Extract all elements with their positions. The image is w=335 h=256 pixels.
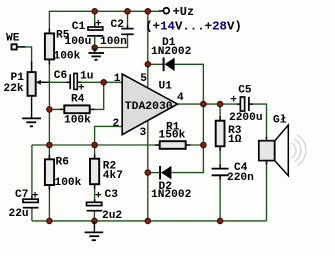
svg-text:1: 1 — [114, 73, 121, 85]
svg-text:+: + — [78, 82, 85, 94]
svg-text:+: + — [95, 191, 102, 203]
svg-text:C3: C3 — [105, 189, 119, 201]
svg-text:+Uz: +Uz — [173, 5, 195, 19]
svg-text:150k: 150k — [159, 130, 186, 142]
svg-text:+: + — [230, 94, 237, 106]
svg-text:1u: 1u — [80, 70, 93, 82]
svg-text:+: + — [32, 190, 39, 202]
svg-text:1Ω: 1Ω — [228, 134, 242, 146]
svg-text:TDA2030: TDA2030 — [125, 101, 173, 113]
svg-text:1N2002: 1N2002 — [151, 46, 192, 58]
svg-text:R6: R6 — [56, 157, 70, 169]
svg-text:2u2: 2u2 — [102, 210, 122, 222]
svg-text:2200u: 2200u — [229, 112, 263, 124]
svg-text:4k7: 4k7 — [103, 170, 123, 182]
svg-text:C7: C7 — [15, 189, 28, 201]
svg-text:22k: 22k — [4, 83, 24, 95]
svg-text:100n: 100n — [100, 36, 127, 48]
svg-text:Gł: Gł — [273, 115, 287, 127]
svg-text:+: + — [95, 18, 102, 30]
svg-text:4: 4 — [177, 92, 184, 104]
svg-text:(+14V...+28V): (+14V...+28V) — [145, 20, 242, 34]
svg-text:100k: 100k — [55, 177, 82, 189]
svg-text:C6: C6 — [54, 70, 68, 82]
svg-text:100u: 100u — [65, 36, 92, 48]
svg-text:C2: C2 — [111, 19, 125, 31]
svg-text:5: 5 — [140, 73, 147, 85]
svg-text:100k: 100k — [54, 50, 81, 62]
svg-text:2: 2 — [113, 118, 120, 130]
svg-text:U1: U1 — [159, 81, 173, 93]
svg-text:1N2002: 1N2002 — [151, 189, 192, 201]
svg-text:C5: C5 — [238, 84, 252, 96]
svg-text:C1: C1 — [72, 21, 86, 33]
svg-text:100k: 100k — [64, 115, 91, 127]
svg-text:WE: WE — [6, 33, 20, 45]
svg-text:R4: R4 — [71, 94, 85, 106]
svg-text:22u: 22u — [9, 208, 29, 220]
svg-text:220n: 220n — [227, 172, 254, 184]
svg-text:3: 3 — [140, 127, 147, 139]
